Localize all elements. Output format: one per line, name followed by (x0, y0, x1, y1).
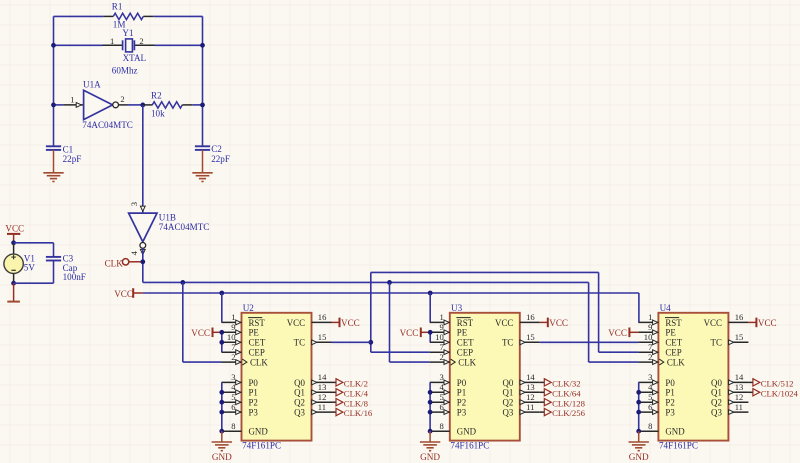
pin 14 stub U2 (312, 381, 332, 383)
svg-text:U2: U2 (243, 303, 255, 313)
pin 8 stub U3 (GND) (430, 430, 450, 432)
svg-text:CLK/512: CLK/512 (761, 379, 794, 389)
svg-text:Q0: Q0 (711, 378, 722, 388)
pin 6 stub U4 (P3) (638, 411, 658, 413)
pin names U4 left (665, 318, 685, 437)
svg-text:VCC: VCC (114, 289, 133, 299)
junction P bus U2 P1 (219, 390, 224, 395)
svg-text:22pF: 22pF (211, 154, 230, 164)
pin 4 stub U4 (P1) (638, 391, 658, 393)
junction left rail / U1A input (51, 103, 56, 108)
wire P bus U2 (221, 382, 223, 431)
svg-text:16: 16 (526, 312, 535, 322)
capacitor C2 (195, 145, 210, 147)
junction P bus U4 P3 (636, 410, 641, 415)
svg-text:4: 4 (648, 382, 653, 392)
junction VCC rail / U2 RST drop (219, 291, 224, 296)
junction U2 PE (219, 330, 224, 335)
power VCC bar V1 (7, 233, 20, 235)
svg-text:7: 7 (440, 342, 445, 352)
svg-text:4: 4 (440, 382, 445, 392)
svg-text:CLK: CLK (105, 258, 124, 268)
wire U1A input pin (64, 104, 84, 106)
svg-text:Q1: Q1 (502, 388, 513, 398)
svg-text:TC: TC (502, 338, 513, 348)
pin arrow U1B output (140, 249, 145, 254)
wire clock drop U3 (389, 282, 391, 362)
svg-text:RST: RST (457, 318, 474, 328)
junction left rail / crystal (51, 43, 56, 48)
wire U1A output (128, 104, 143, 106)
pin 1 stub U3 (RST) (430, 321, 450, 323)
svg-text:2: 2 (120, 94, 124, 104)
wire R2 to right rail (192, 104, 202, 106)
pin names U3 right (495, 318, 514, 418)
svg-text:CLK/256: CLK/256 (552, 408, 585, 418)
pin 7 stub U2 (CEP) (222, 351, 242, 353)
wire P bus U4 (638, 382, 640, 431)
pin 11 stub U2 (312, 411, 332, 413)
power VCC bar U4 pin16 (755, 318, 757, 328)
wire C1 to ground (53, 150, 55, 173)
svg-text:2: 2 (139, 36, 143, 46)
pin 6 stub U2 (P3) (222, 411, 242, 413)
wire V1 bottom pin (13, 274, 15, 284)
svg-text:RST: RST (249, 318, 266, 328)
svg-text:13: 13 (318, 382, 327, 392)
svg-text:U4: U4 (660, 303, 672, 313)
counter U4 74F161PC (658, 313, 728, 441)
svg-text:PE: PE (457, 328, 467, 338)
pin 1 stub U4 (RST) (638, 321, 658, 323)
svg-text:Q3: Q3 (294, 408, 305, 418)
port CLK circle (122, 259, 128, 265)
wire clock to U3 CLK (390, 361, 430, 363)
wire VCC lead U3 PE (421, 331, 430, 333)
svg-text:CLK/32: CLK/32 (552, 379, 580, 389)
svg-text:3: 3 (231, 372, 235, 382)
pin 12 stub U3 (520, 401, 540, 403)
wire left rail (53, 16, 55, 146)
power VCC bar U3 PE (420, 328, 422, 338)
power VCC bar U4 PE (628, 328, 630, 338)
junction CLK node (140, 259, 145, 264)
pin names U2 right (287, 318, 306, 418)
svg-text:3: 3 (129, 202, 139, 206)
junction P bus U4 P2 (636, 400, 641, 405)
svg-text:P1: P1 (665, 388, 674, 398)
svg-text:P1: P1 (249, 388, 258, 398)
svg-text:CLK: CLK (458, 358, 476, 368)
wire to port CLK/512 (748, 381, 753, 383)
wire R1 to top right (153, 15, 202, 17)
pin 9 stub U2 (PE) (222, 331, 242, 333)
pin arrow U1B input (140, 206, 145, 211)
svg-text:CLK: CLK (250, 358, 268, 368)
svg-text:5: 5 (648, 392, 652, 402)
svg-text:CLK/128: CLK/128 (552, 398, 585, 408)
power VCC bar U2 pin16 (339, 318, 341, 328)
wire to port CLK/16 (332, 411, 337, 413)
wire left rail to crystal pin 1 (54, 44, 103, 46)
pin 8 stub U4 (GND) (638, 430, 658, 432)
svg-text:3: 3 (648, 372, 652, 382)
svg-text:P3: P3 (457, 408, 467, 418)
svg-text:GND: GND (420, 452, 440, 462)
pin 2 stub U4 (CLK) (638, 361, 658, 363)
junction clock rail / U2 drop (180, 280, 185, 285)
junction U3 PE (428, 330, 433, 335)
svg-text:1: 1 (110, 36, 114, 46)
wire to port CLK/2 (332, 381, 337, 383)
svg-text:15: 15 (526, 332, 535, 342)
svg-text:GND: GND (665, 427, 685, 437)
port triangle CLK/2 (336, 379, 343, 386)
pin 3 stub U3 (P0) (430, 381, 450, 383)
svg-text:P2: P2 (665, 398, 674, 408)
svg-text:14: 14 (735, 372, 744, 382)
junction right rail / R2 (200, 103, 205, 108)
svg-text:P2: P2 (457, 398, 466, 408)
svg-text:P3: P3 (249, 408, 259, 418)
ground U3 (420, 442, 440, 451)
wire VCC lead rail (133, 292, 143, 294)
svg-text:CLK/2: CLK/2 (344, 379, 368, 389)
junction right rail / crystal (200, 43, 205, 48)
capacitor C1 (46, 145, 61, 147)
wire U2 PE-CET-CEP bus (221, 332, 223, 352)
svg-text:PE: PE (665, 328, 675, 338)
svg-text:16: 16 (318, 312, 327, 322)
wire R2 right pin (182, 104, 192, 106)
pin 1 stub U2 (RST) (222, 321, 242, 323)
wire P bus U3 (429, 382, 431, 431)
svg-text:XTAL: XTAL (123, 53, 147, 63)
svg-text:GND: GND (212, 452, 232, 462)
svg-text:8: 8 (440, 421, 444, 431)
op-amp U1B inverter (129, 213, 157, 242)
svg-text:74AC04MTC: 74AC04MTC (159, 222, 210, 232)
wire VCC rail (143, 292, 639, 294)
power VCC bar rail (132, 288, 134, 298)
pin 14 stub U3 (520, 381, 540, 383)
svg-text:C2: C2 (211, 144, 222, 154)
junction P bus U2 GND (219, 429, 224, 434)
svg-text:P2: P2 (249, 398, 258, 408)
wire CLK port lead (129, 261, 143, 263)
pin 5 stub U2 (P2) (222, 401, 242, 403)
svg-text:TC: TC (711, 338, 722, 348)
svg-text:10: 10 (644, 332, 653, 342)
svg-text:14: 14 (318, 372, 327, 382)
svg-text:P3: P3 (665, 408, 675, 418)
pin 16 stub U3 (520, 321, 540, 323)
svg-text:11: 11 (318, 402, 326, 412)
wire R1 left pin (103, 15, 113, 17)
svg-text:13: 13 (526, 382, 535, 392)
pin 14 stub U4 (728, 381, 748, 383)
wire to port CLK/128 (540, 401, 545, 403)
wire top left to R1 (54, 15, 104, 17)
svg-text:10: 10 (435, 332, 444, 342)
wire to port CLK/64 (540, 391, 545, 393)
svg-text:2: 2 (231, 352, 235, 362)
svg-text:GND: GND (457, 427, 477, 437)
junction P bus U3 GND (428, 429, 433, 434)
pin names U4 right (704, 318, 723, 418)
svg-text:15: 15 (735, 332, 744, 342)
svg-text:10k: 10k (151, 109, 165, 119)
pin 2 stub U3 (CLK) (430, 361, 450, 363)
svg-text:P0: P0 (457, 378, 467, 388)
svg-text:5V: 5V (24, 262, 36, 272)
svg-text:CLK/8: CLK/8 (344, 398, 369, 408)
wire C3 bottom (53, 261, 55, 284)
pin 5 stub U4 (P2) (638, 401, 658, 403)
wire U2 RST drop (221, 293, 223, 322)
junction P bus U3 P2 (428, 400, 433, 405)
pin 16 stub U2 (312, 321, 332, 323)
pin 15 stub U2 (312, 341, 332, 343)
pin 11 stub U3 (520, 411, 540, 413)
pin 16 stub U4 (728, 321, 748, 323)
svg-text:74F161PC: 74F161PC (659, 440, 698, 450)
svg-text:1: 1 (231, 312, 235, 322)
pin 9 stub U3 (PE) (430, 331, 450, 333)
svg-text:TC: TC (294, 338, 305, 348)
wire R2 left pin (143, 104, 153, 106)
U1B output bubble (140, 243, 146, 249)
wire U4 GND lead (638, 431, 640, 442)
wire to port CLK/32 (540, 381, 545, 383)
pin 15 stub U4 (728, 341, 748, 343)
port triangle CLK/16 (336, 408, 343, 415)
wire crystal pin 2 to right rail (155, 44, 203, 46)
svg-text:R2: R2 (151, 90, 162, 100)
wire U3 TC to U4 CET (540, 341, 639, 343)
pin 12 stub U4 (728, 401, 748, 403)
wire U2 GND lead (221, 431, 223, 442)
svg-text:CLK: CLK (667, 358, 685, 368)
svg-text:GND: GND (249, 427, 269, 437)
wire clock drop U2 (182, 282, 184, 362)
wire right rail (202, 16, 204, 146)
svg-text:VCC: VCC (341, 318, 360, 328)
source V1 (4, 254, 23, 273)
pin names U3 left (456, 318, 476, 437)
svg-text:6: 6 (648, 402, 653, 412)
svg-text:10: 10 (227, 332, 236, 342)
power VCC bar U2 PE (212, 328, 214, 338)
svg-text:Q2: Q2 (294, 398, 305, 408)
svg-text:VCC: VCC (5, 224, 24, 234)
svg-text:VCC: VCC (608, 328, 627, 338)
svg-text:CLK/1024: CLK/1024 (761, 388, 799, 398)
svg-text:74F161PC: 74F161PC (450, 440, 489, 450)
resistor R1 (113, 13, 143, 19)
wire VCC lead U2 pin16 (332, 321, 340, 323)
wire clock to U4 CLK (589, 361, 639, 363)
svg-text:CLK/64: CLK/64 (552, 388, 581, 398)
wire U1A output down to U1B input (142, 105, 144, 213)
svg-text:7: 7 (231, 342, 236, 352)
junction P bus U2 P2 (219, 400, 224, 405)
svg-text:Q1: Q1 (711, 388, 722, 398)
wire rail to U1A input (54, 104, 64, 106)
wire R1 right pin (143, 15, 153, 17)
port triangle CLK/256 (544, 408, 551, 415)
wire C2 to ground (202, 150, 204, 173)
svg-text:100nF: 100nF (63, 272, 86, 282)
counter U3 74F161PC (450, 313, 520, 441)
svg-text:P0: P0 (665, 378, 675, 388)
wire to port CLK/8 (332, 401, 337, 403)
pin arrow U1A input (76, 103, 81, 108)
svg-text:Q0: Q0 (502, 378, 513, 388)
pin 13 stub U3 (520, 391, 540, 393)
wire clock rail (143, 281, 589, 283)
svg-text:VCC: VCC (400, 328, 419, 338)
svg-text:14: 14 (526, 372, 535, 382)
svg-text:CEP: CEP (249, 348, 265, 358)
svg-text:PE: PE (249, 328, 259, 338)
svg-text:13: 13 (735, 382, 744, 392)
svg-text:U3: U3 (451, 303, 463, 313)
pin 2 stub U2 (CLK) (222, 361, 242, 363)
svg-text:Q3: Q3 (711, 408, 722, 418)
pin 8 stub U2 (GND) (222, 430, 242, 432)
svg-text:8: 8 (648, 421, 652, 431)
ground bar below V1 (7, 301, 20, 303)
svg-text:CET: CET (665, 338, 682, 348)
svg-text:12: 12 (735, 392, 744, 402)
svg-text:1: 1 (648, 312, 652, 322)
wire to port CLK/1024 (748, 391, 753, 393)
svg-text:Q2: Q2 (502, 398, 513, 408)
resistor R2 (152, 102, 182, 108)
wire crystal right pin (134, 44, 154, 46)
svg-text:CEP: CEP (665, 348, 681, 358)
pin 10 stub U2 (CET) (222, 341, 242, 343)
svg-text:U1A: U1A (83, 79, 101, 89)
pin 7 stub U4 (CEP) (638, 351, 658, 353)
svg-text:12: 12 (318, 392, 327, 402)
junction P bus U3 P3 (428, 410, 433, 415)
wire V1 bottom to C3 branch (14, 282, 54, 284)
svg-text:9: 9 (648, 322, 652, 332)
op-amp U1A inverter (84, 90, 113, 119)
wire C3 top (53, 243, 55, 257)
port triangle CLK/4 (336, 389, 343, 396)
svg-text:22pF: 22pF (63, 154, 82, 164)
junction P bus U4 GND (636, 429, 641, 434)
pin 4 stub U2 (P1) (222, 391, 242, 393)
junction U1A output node (140, 103, 145, 108)
port triangle CLK/32 (544, 379, 551, 386)
wire crystal left pin (103, 44, 123, 46)
svg-text:VCC: VCC (704, 318, 722, 328)
pin 10 stub U4 (CET) (638, 341, 658, 343)
svg-text:4: 4 (231, 382, 236, 392)
wire VCC lead U3 pin16 (540, 321, 548, 323)
svg-text:Q3: Q3 (502, 408, 513, 418)
svg-text:R1: R1 (112, 1, 123, 11)
svg-text:2: 2 (648, 352, 652, 362)
svg-text:16: 16 (735, 312, 744, 322)
pin 9 stub U4 (PE) (638, 331, 658, 333)
svg-text:CET: CET (457, 338, 474, 348)
wire clock drop U4 (588, 282, 590, 362)
svg-text:9: 9 (440, 322, 444, 332)
junction V1 top node (11, 240, 16, 245)
port triangle CLK/512 (753, 379, 760, 386)
wire clock to U2 CLK (183, 361, 222, 363)
svg-text:2: 2 (440, 352, 444, 362)
svg-text:CLK/16: CLK/16 (344, 408, 373, 418)
ground below C1 (43, 173, 63, 182)
svg-text:VCC: VCC (287, 318, 305, 328)
pin 13 stub U2 (312, 391, 332, 393)
wire V1 to ground bar (13, 283, 15, 301)
svg-text:8: 8 (231, 421, 235, 431)
pin 3 stub U2 (P0) (222, 381, 242, 383)
svg-text:74AC04MTC: 74AC04MTC (82, 120, 133, 130)
svg-text:Q0: Q0 (294, 378, 305, 388)
svg-text:VCC: VCC (495, 318, 513, 328)
svg-text:VCC: VCC (549, 318, 568, 328)
svg-text:1: 1 (70, 94, 74, 104)
wire U1A output pin (119, 104, 128, 106)
pin 7 stub U3 (CEP) (430, 351, 450, 353)
pin 3 stub U4 (P0) (638, 381, 658, 383)
pin 13 stub U4 (728, 391, 748, 393)
svg-text:P0: P0 (249, 378, 259, 388)
svg-text:GND: GND (629, 452, 649, 462)
port triangle CLK/8 (336, 399, 343, 406)
crystal Y1 (123, 39, 135, 52)
svg-text:VCC: VCC (191, 328, 210, 338)
svg-text:VCC: VCC (758, 318, 777, 328)
svg-text:12: 12 (526, 392, 535, 402)
wire to port CLK/4 (332, 391, 337, 393)
ground U2 (212, 442, 232, 451)
wire TC rail drop to U4 CEP (598, 272, 600, 352)
wire U2 TC rail (371, 271, 599, 273)
junction P bus U4 P1 (636, 390, 641, 395)
wire U3 GND lead (429, 431, 431, 442)
junction U2 TC / rail (368, 340, 373, 345)
junction V1 bottom node (11, 281, 16, 286)
wire VCC lead U2 PE (213, 331, 222, 333)
svg-text:60Mhz: 60Mhz (112, 65, 138, 75)
svg-text:Y1: Y1 (122, 28, 133, 38)
power VCC bar U3 pin16 (547, 318, 549, 328)
svg-text:6: 6 (440, 402, 445, 412)
svg-text:9: 9 (231, 322, 235, 332)
svg-text:4: 4 (129, 250, 139, 255)
svg-text:11: 11 (735, 402, 743, 412)
port triangle CLK/128 (544, 399, 551, 406)
svg-text:5: 5 (231, 392, 235, 402)
wire U4 RST drop (638, 293, 640, 322)
svg-text:5: 5 (440, 392, 444, 402)
ground U4 (629, 442, 649, 451)
pin 15 stub U3 (520, 341, 540, 343)
svg-text:3: 3 (440, 372, 444, 382)
svg-text:CET: CET (249, 338, 266, 348)
junction clock rail / U3 drop (387, 280, 392, 285)
svg-text:Q2: Q2 (711, 398, 722, 408)
